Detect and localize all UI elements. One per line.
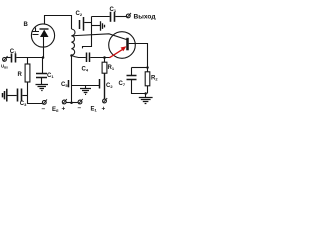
ground mid bars xyxy=(80,89,91,95)
capacitor C2 top plate bar xyxy=(79,20,81,29)
svg-text:C1: C1 xyxy=(10,49,17,55)
vertical line x91 from top wire to stub xyxy=(83,17,92,49)
resistor R2 top lead xyxy=(147,68,149,72)
emitter wire from coil bottom to C4 xyxy=(72,55,86,57)
svg-text:R: R xyxy=(18,72,23,78)
resistor R1 top lead xyxy=(104,58,106,63)
junction dot rc bottom xyxy=(144,92,147,95)
junction dot base network xyxy=(146,66,149,69)
output terminal xyxy=(126,14,130,18)
svg-text:C1: C1 xyxy=(110,7,117,13)
svg-text:C2: C2 xyxy=(106,83,113,89)
junction dot bottom rail xyxy=(70,102,73,105)
mid bottom wire xyxy=(72,85,99,87)
capacitor C6 left plate xyxy=(99,79,101,89)
capacitor C1 input plates xyxy=(11,54,13,63)
capacitor C3 plates xyxy=(17,89,19,102)
ground mid stem xyxy=(85,86,87,89)
junction dot varicap bottom xyxy=(42,56,45,59)
capacitor C2 top plate line xyxy=(83,17,85,31)
coil L xyxy=(72,29,75,55)
capacitor C7 plates xyxy=(127,75,137,77)
terminal E1 plus xyxy=(103,99,107,103)
svg-text:Выход: Выход xyxy=(134,14,157,21)
resistor R top stub xyxy=(27,58,29,65)
transistor base bar xyxy=(126,38,129,51)
capacitor C2 to ground under varicap xyxy=(42,58,44,74)
ground rc stem xyxy=(145,94,147,98)
svg-text:C4: C4 xyxy=(82,67,89,73)
svg-text:–: – xyxy=(42,106,46,113)
resistor R bottom lead xyxy=(28,82,43,104)
wire rc top xyxy=(132,67,148,69)
right chassis ground bars xyxy=(101,21,105,31)
ground rc bars xyxy=(139,98,153,104)
junction dot coil bottom xyxy=(70,54,73,57)
varicap diode cathode bar xyxy=(40,28,49,30)
varicap diode triangle xyxy=(40,30,49,37)
transistor VT circle xyxy=(109,32,136,59)
capacitor C7 bottom lead xyxy=(132,80,146,94)
resistor R1 body xyxy=(102,62,107,73)
svg-text:C1: C1 xyxy=(47,73,54,79)
svg-text:Е1: Е1 xyxy=(91,107,98,113)
svg-text:R2: R2 xyxy=(151,76,158,82)
wire top-left from varicap top to coil top xyxy=(45,16,72,30)
svg-text:Еб: Еб xyxy=(52,107,59,113)
junction emitter node dot xyxy=(103,56,106,59)
wire Eb plus to main line xyxy=(66,102,72,104)
wire input node xyxy=(16,57,43,59)
resistor R body xyxy=(25,64,30,82)
bottom rail to E1 minus xyxy=(72,102,79,104)
ground under varicap capacitor xyxy=(36,85,49,91)
capacitor C1 output plates xyxy=(110,12,112,22)
input terminal Uvx xyxy=(3,58,7,62)
wire input to cap xyxy=(7,57,11,59)
right chassis ground stub xyxy=(92,25,101,27)
capacitor C7 top lead xyxy=(131,68,133,76)
terminal Eb plus xyxy=(62,100,66,104)
terminal E1 minus xyxy=(78,100,82,104)
wire C3 to R lead xyxy=(22,95,27,97)
varicap B circle xyxy=(31,24,54,47)
left chassis ground (horizontal) xyxy=(3,89,7,102)
svg-text:C3: C3 xyxy=(20,101,27,107)
svg-text:C7: C7 xyxy=(119,81,126,87)
wire C2 to x91 line xyxy=(84,22,91,24)
svg-text:–: – xyxy=(78,105,82,112)
capacitor C5 plate xyxy=(68,80,70,87)
capacitor C6 right plate line down to terminal xyxy=(104,73,106,99)
svg-text:Uвх: Uвх xyxy=(1,64,8,70)
transistor emitter red arrowhead xyxy=(121,46,127,51)
svg-text:+: + xyxy=(62,106,66,113)
resistor R2 bottom lead xyxy=(147,86,149,94)
top output wire xyxy=(92,16,110,18)
transistor emitter red lead xyxy=(110,49,124,58)
svg-text:В: В xyxy=(24,22,29,28)
svg-text:C5: C5 xyxy=(61,82,68,88)
varicap bottom lead xyxy=(43,37,45,58)
wire to output terminal xyxy=(115,16,126,18)
svg-text:+: + xyxy=(102,106,106,113)
svg-text:C2: C2 xyxy=(76,11,83,17)
wire ground to C3 xyxy=(7,95,16,97)
svg-text:R1: R1 xyxy=(108,65,115,71)
resistor R2 body xyxy=(145,72,150,86)
transistor base wire right xyxy=(129,44,148,68)
terminal Eb minus xyxy=(42,101,46,105)
collector tap wire from coil to transistor xyxy=(72,34,127,40)
varicap capacitor mark xyxy=(32,28,39,35)
emitter wire C4 to transistor xyxy=(90,57,110,59)
main vertical line from coil bottom to bottom rail xyxy=(71,55,73,103)
capacitor C4 plates xyxy=(86,53,88,63)
